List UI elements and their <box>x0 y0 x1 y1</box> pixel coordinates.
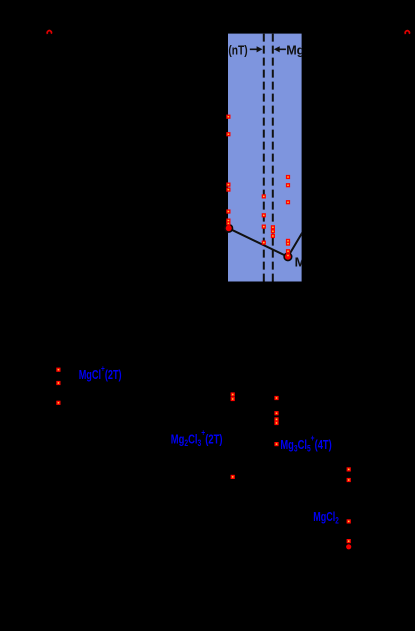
big hull marker right <box>283 252 292 261</box>
data point column at first dashed line <box>262 194 266 198</box>
annotation (nT) with right arrow <box>228 45 247 58</box>
data point column MgCl2 series <box>347 467 351 471</box>
hull line <box>229 228 304 256</box>
data point column at band left edge <box>226 115 230 119</box>
data point column Mg2Cl3+ series <box>231 392 235 396</box>
label Mg2Cl3+(2T) <box>171 427 223 448</box>
red ring top-right <box>405 31 409 34</box>
annotation left arrow MgCl2 <box>277 48 286 50</box>
red filled circle marker bottom <box>346 544 351 549</box>
dashed boundary line left <box>263 34 265 282</box>
highlighted composition band <box>228 34 302 282</box>
label MgCl+(2T) <box>79 364 122 383</box>
label Mg3Cl5+(4T) <box>280 433 332 454</box>
svg-text:(nT): (nT) <box>228 45 247 58</box>
dashed boundary line right <box>272 34 274 282</box>
data point column right in band <box>286 175 290 179</box>
red ring top-left <box>47 31 51 34</box>
label MgCl2 <box>313 510 339 525</box>
data point column Mg3Cl5+ series <box>274 396 278 400</box>
data point column at second dashed line <box>271 225 275 229</box>
big hull marker left <box>224 224 233 233</box>
data point column MgCl+ series <box>56 368 60 372</box>
